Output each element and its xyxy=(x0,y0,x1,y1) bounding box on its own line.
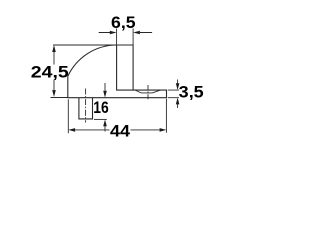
svg-text:44: 44 xyxy=(110,123,131,141)
dim 6,5 lines xyxy=(99,32,152,34)
arrowheads 3,5 xyxy=(176,83,180,90)
dim 3,5 line lower xyxy=(177,104,179,109)
svg-text:16: 16 xyxy=(93,99,109,117)
dim 44 extensions xyxy=(68,99,166,134)
svg-text:6,5: 6,5 xyxy=(111,14,136,32)
dim 44 lines xyxy=(75,129,160,131)
arrowheads 44 xyxy=(68,128,75,132)
dim 24,5 bottom extension xyxy=(51,97,68,99)
door stop body outline xyxy=(68,45,167,98)
dim 24,5 line lower xyxy=(53,80,55,92)
dim 6,5 extension lines xyxy=(117,29,134,46)
dim 24,5 top extension xyxy=(53,44,117,46)
mounting peg xyxy=(79,98,93,119)
svg-text:24,5: 24,5 xyxy=(31,64,69,82)
dim 16 bottom arrow shaft xyxy=(104,126,106,132)
dim 16 extension xyxy=(94,118,107,120)
arrowheads 24,5 xyxy=(52,45,56,52)
rubber buffer edge xyxy=(117,45,134,90)
svg-text:3,5: 3,5 xyxy=(179,83,204,101)
hole centerline xyxy=(147,85,149,100)
dim 3,5 extensions xyxy=(168,90,179,98)
dim 16 top arrow shaft xyxy=(104,83,106,91)
countersunk hole xyxy=(135,90,160,93)
dim 24,5 line upper xyxy=(53,52,55,65)
arrowheads 16 xyxy=(103,91,107,98)
arrowheads 6,5 xyxy=(110,31,117,35)
dim 3,5 line upper xyxy=(177,80,179,85)
peg centerline xyxy=(85,89,87,123)
